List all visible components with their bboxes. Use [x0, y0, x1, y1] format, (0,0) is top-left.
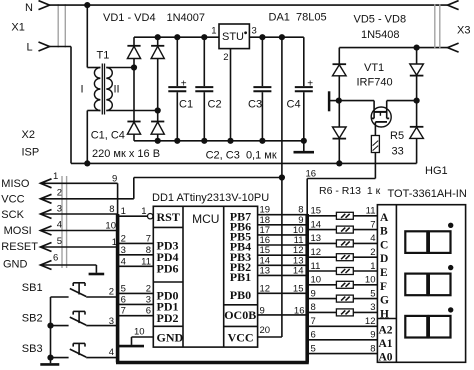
- svg-text:G: G: [380, 295, 389, 307]
- wire bridge2 top rail: [339, 47, 447, 49]
- resistor R6: [336, 212, 353, 219]
- wire DA1 output rail: [249, 36, 303, 38]
- wire PD6 net4: [118, 265, 154, 267]
- svg-text:8: 8: [109, 204, 114, 215]
- svg-text:PD2: PD2: [157, 311, 179, 325]
- wire R9 to display: [353, 256, 377, 258]
- svg-text:PD6: PD6: [157, 262, 179, 276]
- svg-text:33: 33: [392, 146, 404, 158]
- wire PB1 net14: [258, 274, 308, 276]
- wire PB0 net15: [258, 292, 308, 294]
- connector X3 bracket: [434, 4, 436, 48]
- resistor R9: [336, 254, 353, 261]
- diode VD2: [151, 45, 164, 47]
- svg-text:SB2: SB2: [22, 313, 43, 325]
- wire RST net1: [118, 215, 148, 217]
- display HG1 body: [377, 205, 465, 363]
- wire bus to display A2 net7: [307, 325, 377, 327]
- wire bus to R12: [307, 298, 336, 300]
- node VT1 drain tap: [414, 98, 420, 104]
- svg-text:C1, C4: C1, C4: [91, 130, 125, 142]
- svg-text:L: L: [27, 42, 33, 54]
- wire bus to R11: [307, 284, 336, 286]
- svg-text:VT1: VT1: [364, 62, 384, 74]
- svg-text:9: 9: [260, 306, 265, 317]
- transformer T1 core: [101, 64, 103, 115]
- svg-text:7: 7: [121, 306, 126, 317]
- svg-text:11: 11: [311, 261, 321, 272]
- svg-text:12: 12: [260, 283, 271, 294]
- svg-text:R5: R5: [390, 130, 404, 142]
- svg-text:HG1: HG1: [425, 165, 448, 177]
- button SB1: [51, 296, 69, 298]
- diode VD1: [127, 45, 140, 47]
- svg-text:MISO: MISO: [1, 178, 30, 190]
- node C1 top: [174, 34, 180, 40]
- wire N rail (X1-N to X3): [50, 4, 448, 6]
- svg-text:R6 - R13 1 к: R6 - R13 1 к: [319, 185, 381, 197]
- svg-text:SB1: SB1: [22, 282, 43, 294]
- connector X2 pin MOSI symbol: [41, 226, 52, 235]
- svg-text:7: 7: [146, 233, 151, 244]
- wire secondary top to bridge: [106, 67, 134, 69]
- svg-text:1: 1: [121, 206, 126, 217]
- svg-text:14: 14: [293, 265, 304, 276]
- wire OC0B net16: [258, 314, 308, 316]
- resistor R10: [336, 268, 353, 275]
- svg-text:13: 13: [260, 265, 271, 276]
- node primary-bottom junction: [84, 160, 90, 166]
- svg-text:1: 1: [53, 171, 58, 182]
- transistor VT1 gate electrode: [328, 91, 331, 111]
- svg-text:6: 6: [121, 294, 126, 305]
- wire bridge1 top rail: [134, 36, 219, 38]
- wire bus to R6: [307, 215, 336, 217]
- wire bus to R9: [307, 256, 336, 258]
- svg-text:STU: STU: [222, 31, 244, 43]
- wire PD3 net2: [118, 242, 154, 244]
- transistor VT1 substrate tick: [379, 112, 381, 116]
- svg-text:VD1 - VD4: VD1 - VD4: [103, 12, 156, 24]
- wire SB2 net3: [86, 325, 117, 327]
- svg-text:2: 2: [223, 52, 228, 63]
- wire PB6 net9: [258, 224, 308, 226]
- diode VD4: [151, 121, 164, 123]
- svg-text:F: F: [380, 281, 387, 293]
- capacitor C1: [176, 37, 178, 86]
- diode VD5: [333, 63, 347, 65]
- svg-text:6: 6: [311, 330, 316, 341]
- svg-text:13: 13: [311, 233, 322, 244]
- svg-text:2: 2: [146, 283, 151, 294]
- svg-text:12: 12: [365, 316, 376, 327]
- wire PB3 net12: [258, 254, 308, 256]
- capacitor C2: [203, 37, 205, 86]
- IC DD1 right cell dividers: [224, 304, 258, 306]
- svg-text:12: 12: [311, 247, 322, 258]
- svg-text:5: 5: [311, 343, 316, 354]
- svg-text:X2: X2: [22, 129, 35, 141]
- connector X1 bracket: [57, 4, 59, 47]
- regulator DA1 box: [219, 24, 249, 49]
- wire A mains loop: [71, 162, 417, 164]
- svg-text:TOT-3361AH-IN: TOT-3361AH-IN: [388, 188, 467, 200]
- svg-text:GND: GND: [157, 331, 184, 345]
- wire PB2 net13: [258, 264, 308, 266]
- connector X2 pin MISO symbol: [41, 179, 52, 188]
- svg-text:10: 10: [105, 221, 116, 232]
- wire B +5V to ISP VCC: [134, 177, 282, 179]
- bus left edge: [116, 214, 120, 363]
- connector X1 pin L symbol: [39, 42, 50, 51]
- svg-text:A1: A1: [379, 338, 393, 350]
- diode VD7: [333, 127, 347, 138]
- svg-text:220 мк x 16 В: 220 мк x 16 В: [92, 148, 160, 160]
- connector X2 pin VCC symbol: [41, 194, 52, 203]
- wire VT1 source lead: [339, 100, 374, 102]
- svg-text:C2, C3 0,1 мк: C2, C3 0,1 мк: [206, 150, 277, 162]
- svg-text:A2: A2: [379, 324, 393, 336]
- svg-text:3: 3: [57, 204, 62, 215]
- transformer T1 primary winding: [94, 68, 100, 111]
- display digit 2 decimal point: [448, 265, 453, 270]
- wire R10 to display: [353, 270, 377, 272]
- svg-text:11: 11: [366, 206, 376, 217]
- wire bus to display A1 net6: [307, 339, 377, 341]
- svg-text:PB1: PB1: [230, 270, 251, 284]
- button SB3: [51, 357, 69, 359]
- wire DA1 pin2 to ground rail: [230, 49, 232, 141]
- wire net16 to R5: [307, 178, 375, 180]
- display digit 1 glyph: [405, 231, 427, 253]
- node C2 top: [201, 34, 207, 40]
- node C1 bottom: [174, 138, 180, 144]
- ground at C4: [303, 141, 305, 151]
- svg-text:20: 20: [260, 325, 271, 336]
- svg-text:2: 2: [109, 287, 114, 298]
- connector X2 pin GND symbol: [41, 261, 52, 270]
- svg-text:D: D: [380, 253, 388, 265]
- wire primary-top drop: [86, 5, 88, 67]
- svg-text:C3: C3: [248, 99, 262, 111]
- transistor VT1 body circle: [371, 107, 391, 127]
- display digit 3 decimal point: [448, 307, 453, 312]
- svg-text:B: B: [380, 226, 388, 238]
- wire ISP VCC: [41, 198, 134, 200]
- wire VT1 drain lead: [387, 100, 417, 102]
- wire PB4 net11: [258, 244, 308, 246]
- wire +5V vertical: [281, 37, 283, 337]
- svg-text:N: N: [25, 2, 33, 14]
- svg-text:9: 9: [370, 330, 375, 341]
- svg-text:9: 9: [112, 173, 117, 184]
- svg-text:6: 6: [53, 253, 58, 264]
- ground at buttons: [40, 363, 59, 366]
- node VT1 source tap: [336, 98, 342, 104]
- svg-text:X3: X3: [457, 25, 470, 37]
- svg-text:I: I: [81, 84, 84, 96]
- node C2 bottom: [201, 138, 207, 144]
- button SB2: [51, 325, 69, 327]
- node bridge2/X3 junction: [414, 45, 420, 51]
- transistor VT1 gate bar: [375, 121, 387, 123]
- wire SB1 net2: [86, 296, 117, 298]
- svg-text:10: 10: [134, 327, 145, 338]
- svg-text:4: 4: [121, 256, 126, 267]
- svg-text:VCC: VCC: [1, 193, 24, 205]
- diode VD8: [410, 126, 424, 128]
- display digit 2 glyph: [405, 274, 427, 296]
- node C3 top: [259, 34, 265, 40]
- svg-text:1: 1: [370, 261, 375, 272]
- connector X3 pin N symbol: [448, 1, 459, 10]
- wire PD2 net7: [118, 315, 154, 317]
- svg-text:4: 4: [370, 233, 375, 244]
- ground at ISP: [89, 273, 105, 276]
- wire PD1 net6: [118, 303, 154, 305]
- ground at MCU GND: [119, 345, 144, 348]
- svg-text:3: 3: [146, 294, 151, 305]
- wire ISP GND: [41, 264, 97, 266]
- node SB3 common: [47, 355, 53, 361]
- svg-text:VCC: VCC: [228, 331, 254, 345]
- svg-text:5: 5: [121, 283, 126, 294]
- svg-text:5: 5: [57, 236, 62, 247]
- wire bus to R10: [307, 270, 336, 272]
- wire MCU GND: [132, 336, 154, 338]
- svg-text:C: C: [380, 239, 388, 251]
- svg-text:PB0: PB0: [230, 288, 251, 302]
- svg-text:1N5408: 1N5408: [361, 29, 400, 41]
- svg-text:3: 3: [252, 26, 257, 37]
- bus right edge thin: [306, 179, 308, 216]
- wire MCU VCC to +5V: [258, 336, 282, 338]
- wire R6 to display: [353, 215, 377, 217]
- wire PD4 net3: [118, 254, 154, 256]
- svg-text:II: II: [114, 84, 120, 96]
- svg-text:2: 2: [370, 247, 375, 258]
- wire PB7 net8: [258, 214, 308, 216]
- svg-text:7: 7: [370, 219, 375, 230]
- wire R11 to display: [353, 284, 377, 286]
- svg-text:2: 2: [57, 188, 62, 199]
- transistor VT1 channel bar: [374, 111, 387, 113]
- connector X1 pin N symbol: [39, 1, 50, 10]
- wire bus to R7: [307, 229, 336, 231]
- wire L from X1: [50, 46, 72, 48]
- svg-text:3: 3: [370, 302, 375, 313]
- wire button common: [50, 297, 52, 363]
- wire RESET net1: [41, 246, 118, 248]
- bus bottom edge: [116, 361, 309, 365]
- svg-text:MCU: MCU: [192, 212, 219, 226]
- svg-text:E: E: [380, 267, 388, 279]
- svg-text:6: 6: [146, 306, 151, 317]
- diode VD6: [410, 64, 424, 75]
- resistor R7: [336, 226, 353, 233]
- svg-text:SB3: SB3: [22, 343, 43, 355]
- node +5V / wire-B junction: [279, 174, 285, 180]
- svg-text:8: 8: [146, 245, 151, 256]
- IC DD1 left cell dividers: [153, 226, 183, 228]
- svg-text:A0: A0: [379, 352, 393, 364]
- capacitor C4: [303, 37, 305, 86]
- wire R7 to display: [353, 229, 377, 231]
- svg-text:IRF740: IRF740: [357, 77, 393, 89]
- svg-text:A: A: [380, 212, 389, 224]
- node DA1 pin2 bottom: [227, 138, 233, 144]
- svg-text:3: 3: [109, 316, 114, 327]
- wire PB5 net10: [258, 234, 308, 236]
- node SB2 common: [47, 323, 53, 329]
- svg-text:4: 4: [109, 347, 114, 358]
- svg-text:H: H: [380, 308, 389, 320]
- transistor VT1 gate lead: [374, 122, 376, 136]
- svg-text:C2: C2: [208, 99, 222, 111]
- node N/primary junction: [84, 2, 90, 8]
- svg-text:ISP: ISP: [22, 147, 40, 159]
- connector X3 pin L symbol: [448, 43, 459, 52]
- svg-text:7: 7: [311, 316, 316, 327]
- connector X2 pin SCK symbol: [41, 210, 52, 219]
- svg-text:5: 5: [370, 288, 375, 299]
- display digit 3 glyph: [405, 316, 427, 338]
- resistor R12: [336, 295, 353, 302]
- wire SCK net8: [41, 213, 118, 215]
- node C3 bottom: [259, 138, 265, 144]
- svg-text:MOSI: MOSI: [4, 225, 32, 237]
- wire PD0 net5: [118, 292, 154, 294]
- wire SB3 net4: [86, 357, 117, 359]
- svg-text:GND: GND: [3, 258, 28, 270]
- display digit 1 decimal point: [448, 223, 453, 228]
- svg-text:X1: X1: [11, 22, 24, 34]
- node secondary-bottom junction: [155, 107, 161, 113]
- wire R12 to display: [353, 298, 377, 300]
- wire R8 to display: [353, 242, 377, 244]
- resistor R11: [336, 281, 353, 288]
- node +5V rail tap: [279, 34, 285, 40]
- svg-text:15: 15: [311, 206, 322, 217]
- transistor VT1 drain foot: [387, 117, 390, 119]
- svg-text:4: 4: [57, 219, 62, 230]
- svg-text:RST: RST: [157, 210, 180, 224]
- connector X2 bracket: [61, 176, 63, 268]
- svg-text:1: 1: [211, 26, 216, 37]
- svg-text:OC0B: OC0B: [224, 308, 256, 322]
- svg-text:16: 16: [294, 306, 305, 317]
- svg-text:SCK: SCK: [1, 209, 24, 221]
- bus right edge: [305, 214, 309, 363]
- svg-text:8: 8: [370, 343, 375, 354]
- svg-text:10: 10: [365, 275, 376, 286]
- svg-text:C1: C1: [179, 99, 193, 111]
- wire bus to R8: [307, 242, 336, 244]
- svg-text:RESET: RESET: [1, 241, 38, 253]
- svg-text:11: 11: [141, 256, 151, 267]
- resistor R13: [336, 309, 353, 316]
- node bridge2 left bottom: [336, 160, 342, 166]
- wire MOSI net10: [41, 230, 118, 232]
- wire bus to display A0 net5: [307, 353, 377, 355]
- diode VD3: [127, 121, 140, 123]
- connector X2 pin RESET symbol: [41, 243, 52, 252]
- svg-text:+: +: [307, 78, 313, 89]
- svg-text:DD1 ATtiny2313V-10PU: DD1 ATtiny2313V-10PU: [152, 192, 269, 204]
- node bridge1 D2 top: [155, 34, 161, 40]
- svg-text:T1: T1: [97, 50, 110, 62]
- resistor R5: [371, 136, 379, 153]
- svg-text:9: 9: [311, 288, 316, 299]
- svg-text:+: +: [181, 78, 187, 89]
- wire secondary bottom to bridge: [106, 110, 157, 112]
- svg-text:8: 8: [311, 302, 316, 313]
- svg-text:1: 1: [141, 206, 146, 217]
- IC DD1 body: [153, 206, 257, 347]
- wire R13 to display: [353, 311, 377, 313]
- svg-text:2: 2: [121, 233, 126, 244]
- node C4 bottom / ground junction: [301, 138, 307, 144]
- svg-text:C4: C4: [287, 99, 301, 111]
- wire bridge1 bottom rail: [134, 140, 304, 142]
- pin RST inversion bubble: [148, 214, 153, 219]
- transistor VT1 source foot: [372, 117, 375, 119]
- svg-text:15: 15: [293, 283, 304, 294]
- wire bus to R13: [307, 311, 336, 313]
- wire MISO net9: [41, 182, 118, 184]
- node bridge1 D4 bottom: [155, 138, 161, 144]
- node secondary-top junction: [131, 64, 137, 70]
- capacitor C3: [261, 37, 263, 86]
- svg-text:1N4007: 1N4007: [167, 12, 206, 24]
- svg-text:14: 14: [311, 219, 322, 230]
- svg-text:DA1 78L05: DA1 78L05: [269, 12, 327, 24]
- bus left edge thin: [117, 183, 119, 215]
- svg-text:VD5 - VD8: VD5 - VD8: [354, 14, 407, 26]
- svg-text:3: 3: [121, 245, 126, 256]
- resistor R8: [336, 240, 353, 247]
- transformer T1 secondary winding: [106, 68, 112, 111]
- svg-text:10: 10: [311, 275, 322, 286]
